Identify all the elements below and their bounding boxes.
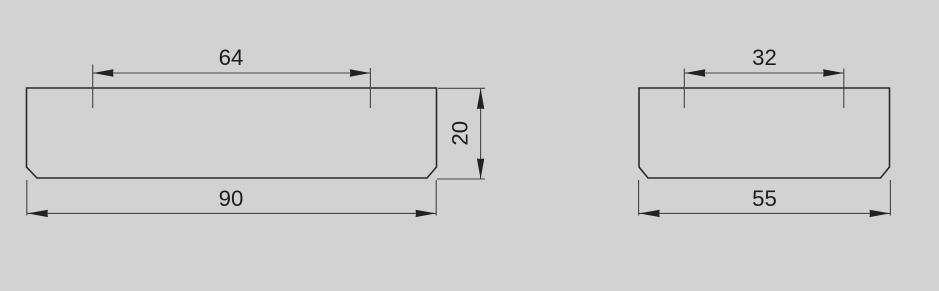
- svg-text:32: 32: [752, 45, 777, 70]
- svg-text:90: 90: [219, 186, 244, 211]
- svg-text:64: 64: [219, 45, 244, 70]
- svg-text:55: 55: [752, 186, 777, 211]
- svg-text:20: 20: [448, 121, 473, 146]
